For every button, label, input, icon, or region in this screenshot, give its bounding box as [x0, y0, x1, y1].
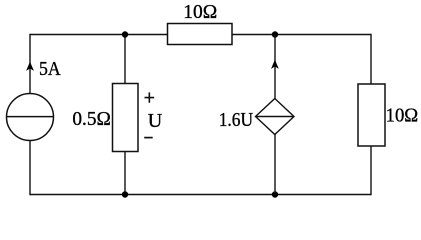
svg-text:10Ω: 10Ω [386, 105, 419, 127]
svg-text:U: U [148, 110, 163, 132]
wire right vertical upper [370, 34, 372, 84]
current arrow for 5A source [26, 62, 34, 71]
minus sign of U [144, 137, 153, 139]
wire middle-left vertical upper [124, 35, 126, 84]
wire top right segment [232, 34, 371, 36]
node dot bottom-right [272, 191, 278, 197]
wire right vertical lower [370, 146, 372, 195]
plus sign of U [145, 92, 155, 102]
resistor 0.5 ohm body [113, 84, 139, 152]
current source I1 circle [7, 94, 54, 141]
node dot top-left (node A) [122, 31, 128, 37]
resistor 10 ohm right body [358, 84, 385, 146]
resistor 10 ohm top body [168, 24, 233, 45]
wire middle-left vertical lower [124, 152, 126, 195]
dependent source bar [256, 116, 295, 118]
current arrow for dependent source [271, 60, 279, 69]
svg-text:10Ω: 10Ω [183, 1, 217, 23]
wire bottom [30, 194, 371, 196]
node dot bottom-left [122, 191, 128, 197]
wire left vertical lower [29, 141, 31, 196]
wire top left segment [30, 34, 168, 36]
wire middle-right vertical lower [274, 135, 276, 195]
dependent current source 1.6U diamond [256, 99, 295, 135]
svg-text:5A: 5A [39, 58, 61, 80]
svg-text:0.5Ω: 0.5Ω [72, 108, 111, 130]
wire middle-right vertical upper [274, 35, 276, 99]
node dot top-right (node B) [272, 31, 278, 37]
current source I1 bar [7, 116, 54, 118]
wire left vertical upper [29, 34, 31, 94]
svg-text:1.6U: 1.6U [219, 109, 254, 131]
